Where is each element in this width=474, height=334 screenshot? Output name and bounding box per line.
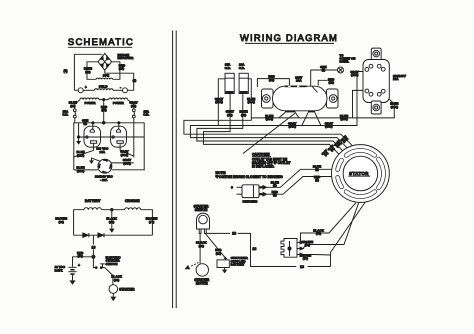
svg-text:(44A): (44A)	[288, 125, 296, 129]
wire bridge AC right to DPE	[112, 62, 120, 80]
wire GRAY 44A under outlet	[218, 72, 363, 126]
panel divider double rule	[173, 31, 177, 309]
label GRN (3) left	[82, 119, 88, 126]
svg-text:(44A): (44A)	[123, 161, 131, 165]
wire starter to ground	[112, 293, 114, 296]
svg-text:NOTE:: NOTE:	[216, 171, 226, 175]
stator slot right	[379, 159, 384, 187]
title SCHEMATIC	[68, 36, 134, 47]
svg-text:(22): (22)	[269, 78, 274, 82]
node center tap dot	[111, 209, 113, 211]
svg-text:(44A): (44A)	[325, 125, 333, 129]
wire customer battery ground	[224, 268, 226, 270]
receptacle 120V right	[111, 126, 127, 147]
label BROWN (77) harness	[300, 253, 312, 260]
label 120/240V 20A right	[393, 74, 406, 81]
terminal arrow 55	[297, 241, 303, 244]
wire bridge DC+ to (1) right rail	[105, 70, 134, 90]
svg-text:(55): (55)	[316, 232, 321, 236]
terminal slot band top	[285, 86, 307, 88]
svg-text:(16): (16)	[199, 244, 204, 248]
label STARTER SWITCH	[194, 204, 210, 211]
label 20A C.B. breaker2	[239, 63, 246, 70]
label 12 VDC BATT.	[55, 265, 66, 272]
label GRAY (44) breaker	[226, 110, 234, 117]
svg-text:(3): (3)	[322, 68, 326, 72]
label POWER left	[85, 101, 97, 105]
wire twist-lock left feed	[74, 169, 98, 171]
stator slot lower-left	[338, 178, 342, 187]
svg-text:WIRING DIAGRAM: WIRING DIAGRAM	[240, 32, 338, 43]
wire GRN drop into right receptacle	[118, 123, 120, 129]
wire switch to starter	[105, 268, 113, 285]
label RED (22) duplex right	[328, 77, 335, 84]
coil FIELD winding	[95, 89, 113, 91]
label GRAY (44)	[129, 101, 137, 108]
wire BLACK 55 harness	[301, 203, 356, 243]
wire twist-lock right top	[112, 157, 134, 163]
label RED (22) at bridge	[119, 63, 126, 70]
wire right receptacle hot down	[120, 143, 134, 156]
svg-text:13: 13	[252, 247, 256, 251]
terminal arrow 77	[297, 253, 303, 256]
wire DC- top loop to field (4)	[74, 54, 102, 90]
svg-text:C.B.: C.B.	[225, 66, 231, 70]
label FIELD	[99, 85, 108, 89]
ground arrow duplex	[76, 141, 81, 145]
svg-text:BATTERY: BATTERY	[231, 263, 245, 267]
title WIRING DIAGRAM	[240, 32, 338, 43]
brush terminal right	[113, 85, 128, 92]
svg-text:(22): (22)	[101, 108, 106, 112]
label BLUE (2) near stator	[313, 164, 321, 171]
customer battery B1	[217, 257, 229, 268]
wire bridge AC left to DPE	[87, 62, 98, 80]
svg-text:SWITCH: SWITCH	[195, 208, 208, 212]
label STARTER	[119, 287, 135, 291]
svg-text:13: 13	[92, 246, 96, 250]
label BLUE (11A) breaker	[247, 97, 255, 104]
svg-text:SCHEMATIC: SCHEMATIC	[68, 36, 134, 47]
caution leader line	[243, 113, 295, 153]
svg-text:(11A): (11A)	[391, 105, 398, 109]
svg-text:(44A): (44A)	[121, 153, 129, 157]
stator slot upper-left	[338, 160, 342, 169]
label RED (22) center tap	[101, 105, 108, 112]
label BLUE (11A) rotated	[340, 135, 349, 144]
ground arrow black 55	[109, 229, 115, 233]
wire RED 22 right	[318, 80, 327, 85]
coil POWER right	[109, 98, 128, 100]
label 120 VAC 20A	[96, 147, 109, 154]
terminal arrow 66	[297, 247, 303, 250]
label 15A C.B. left	[62, 110, 69, 117]
svg-text:(77): (77)	[303, 257, 308, 261]
duplex outlet 120V 20A body	[273, 86, 328, 111]
label CHARGE	[125, 199, 140, 203]
terminal tabs bottom	[285, 110, 315, 112]
label BLUE (11A) under left	[265, 114, 273, 121]
label BLUE (11)	[69, 101, 77, 108]
mount tab bottom	[371, 101, 381, 114]
label GRAY (44A) at 240 outlet	[350, 70, 358, 77]
svg-text:(4): (4)	[63, 69, 67, 73]
label GRAY (44) rotated	[321, 149, 330, 158]
svg-text:(2): (2)	[315, 168, 319, 172]
svg-text:(77): (77)	[149, 220, 154, 224]
label BROWN (77)	[146, 217, 158, 224]
label BROWN (66)	[55, 217, 67, 224]
svg-text:C.B.: C.B.	[62, 113, 68, 117]
label RED (22) duplex left	[268, 75, 275, 82]
receptacle 120V left	[84, 126, 101, 147]
svg-text:(55): (55)	[109, 220, 114, 224]
svg-text:13: 13	[232, 231, 236, 235]
svg-text:20A: 20A	[296, 79, 302, 83]
svg-text:+: +	[78, 263, 80, 267]
wire power center tap	[99, 99, 109, 123]
svg-text:C.B.: C.B.	[239, 66, 245, 70]
svg-text:SWITCH: SWITCH	[106, 262, 118, 266]
circuit breaker CB1 15A left	[73, 100, 80, 123]
stator slot top	[346, 150, 374, 155]
wire GRN drop into left receptacle	[92, 123, 94, 129]
label STARTER MOTOR	[194, 278, 210, 285]
label 120/240 VAC 20A	[95, 175, 114, 182]
linkage dashed arrow	[186, 263, 199, 269]
mount tab top	[371, 48, 381, 61]
coil POWER left	[80, 98, 99, 100]
label BLUE (2) near brush	[271, 180, 279, 187]
svg-text:(44A): (44A)	[215, 100, 223, 104]
wire twist-lock right bottom	[112, 169, 145, 172]
svg-text:*POSITIVE BRUSH CLOSEST TO BEA: *POSITIVE BRUSH CLOSEST TO BEARING	[216, 175, 284, 179]
connector plug J1	[281, 239, 297, 258]
svg-text:RECTIFIER: RECTIFIER	[118, 56, 135, 60]
label 13 at switch	[231, 231, 238, 236]
svg-text:FIELD: FIELD	[99, 85, 108, 89]
label GRAY (44A) breaker	[215, 97, 223, 104]
svg-text:(11): (11)	[241, 113, 246, 117]
wire BLUE 11A under outlet	[251, 99, 394, 118]
ground arrow 12V battery	[69, 280, 75, 284]
diode D1	[83, 233, 89, 237]
label GRAY (44A) rotated	[334, 139, 343, 148]
label BLUE (11A) upper	[77, 150, 85, 157]
label 13 left	[91, 245, 96, 250]
svg-text:STATOR: STATOR	[349, 171, 369, 176]
wire left receptacle hot down	[74, 143, 94, 157]
wire brush RED 1	[267, 177, 332, 195]
svg-text:(11A): (11A)	[248, 100, 255, 104]
svg-text:PANEL: PANEL	[340, 60, 350, 64]
wire battery charge bus	[74, 210, 153, 236]
ground stub twist-lock	[89, 158, 100, 164]
svg-text:+: +	[85, 86, 87, 90]
starter switch key	[197, 213, 210, 233]
node junction red 13	[92, 255, 95, 258]
wire RED 22 left	[257, 79, 289, 87]
svg-text:(11A): (11A)	[266, 117, 273, 121]
wire ground drop duplex	[78, 123, 84, 141]
label BLACK (16)	[111, 275, 122, 282]
label 15A C.B. right	[143, 110, 150, 117]
svg-text:(13): (13)	[78, 254, 83, 258]
wire BROWN 66 harness	[303, 203, 358, 249]
wire 13 to stator	[331, 202, 366, 267]
stator slot bottom	[346, 192, 374, 197]
svg-text:(11A): (11A)	[77, 169, 84, 173]
battery 12VDC	[68, 263, 80, 274]
starter motor S1	[109, 285, 118, 294]
label BLUE (11) breaker	[240, 110, 248, 117]
wire to 12V battery	[73, 257, 94, 267]
svg-text:C.B.: C.B.	[143, 113, 149, 117]
svg-text:STARTER: STARTER	[119, 287, 135, 291]
svg-text:CHARGE: CHARGE	[125, 199, 140, 203]
wire switch to customer battery	[205, 233, 225, 258]
label STATOR	[348, 171, 370, 176]
wire black 55 to ground	[111, 210, 113, 229]
svg-text:(16): (16)	[114, 278, 119, 282]
label DPE	[103, 74, 109, 78]
label GRAY (44A) under right	[325, 121, 333, 128]
wire neutral link between receptacles	[101, 136, 145, 138]
ground arrow starter	[110, 297, 116, 302]
wire switch to starter motor	[199, 233, 201, 263]
brush assembly	[231, 185, 266, 198]
stator inner ring	[343, 156, 378, 191]
label BLACK (55) harness	[313, 228, 324, 235]
label BATTERY	[85, 199, 101, 203]
wire 13 down right	[238, 233, 297, 266]
ground arrow customer battery	[222, 270, 227, 274]
bridge rectifier BR1	[98, 53, 112, 70]
label BLACK (55)	[106, 217, 117, 224]
wire diode bus	[74, 234, 153, 236]
wire switch to 13 label	[206, 232, 230, 234]
svg-text:BRUSHES: BRUSHES	[243, 200, 258, 204]
wire 13 drop	[92, 235, 94, 257]
label 15A C.B. breaker1	[225, 63, 232, 70]
label 120V 20A	[295, 75, 302, 82]
svg-text:DPE: DPE	[103, 74, 109, 78]
label RED (13) right	[215, 248, 222, 255]
circuit breaker 15A C.B.	[225, 73, 234, 93]
receptacle 120/240V 20A body	[363, 60, 389, 103]
mount ear left	[262, 89, 274, 108]
wire GRN 3 to screw	[311, 70, 338, 86]
label BLUE (11A) at 240 outlet	[390, 102, 398, 109]
label TO SCREW ON PANEL	[340, 53, 356, 63]
svg-text:(1): (1)	[315, 178, 319, 182]
note POSITIVE BRUSH text	[216, 171, 284, 179]
note CAUTION text	[252, 153, 290, 169]
node junction dots on box top	[92, 122, 120, 125]
svg-text:IS REPLACED.: IS REPLACED.	[252, 164, 274, 168]
label GRAY (44A) lower	[123, 158, 131, 165]
svg-text:20A: 20A	[100, 150, 106, 154]
wire BLUE 11 bus	[197, 94, 343, 151]
svg-text:13: 13	[300, 265, 304, 269]
svg-text:POWER: POWER	[85, 101, 97, 105]
svg-text:POWER: POWER	[113, 101, 125, 105]
svg-text:(12): (12)	[85, 70, 90, 74]
wire GRAY 44A bus	[190, 79, 347, 148]
wire BLUE 11A bus	[184, 79, 353, 146]
label BLUE (11A) mid	[340, 114, 348, 121]
wire brush BLUE 2	[267, 169, 332, 187]
svg-text:- 20A: - 20A	[100, 178, 108, 182]
svg-text:(2): (2)	[273, 184, 277, 188]
node (1) label	[133, 78, 137, 82]
wire outlet box frame	[74, 123, 144, 171]
svg-text:(66): (66)	[305, 243, 310, 247]
wire BROWN 77 harness	[303, 254, 330, 257]
coil CHARGE winding	[125, 208, 141, 210]
svg-text:CAUTION!!!: CAUTION!!!	[252, 153, 270, 157]
label BRUSHES	[243, 200, 258, 204]
label CUSTOMER SUPPLIED BATTERY	[231, 256, 249, 266]
label RED (1) near stator	[314, 175, 321, 182]
wire GRAY 44 bus	[204, 94, 339, 155]
svg-text:(66): (66)	[59, 220, 64, 224]
electric starter switch	[93, 257, 104, 269]
label BLUE (11) rotated	[327, 144, 336, 153]
label RED (13) left	[77, 251, 84, 258]
label ELECTRIC STARTER SWITCH	[106, 255, 122, 265]
coil DPE winding	[96, 78, 112, 79]
coil BATTERY winding	[84, 208, 101, 210]
mount ear right	[327, 89, 339, 108]
circuit breaker CB2 15A right	[128, 100, 136, 157]
label GRAY (44A) under left	[288, 121, 296, 128]
panel screw symbol	[338, 67, 344, 73]
svg-text:BATTERY: BATTERY	[85, 199, 101, 203]
label BRIDGE RECTIFIER	[118, 53, 135, 60]
svg-text:MOTOR: MOTOR	[196, 281, 209, 285]
svg-text:20A: 20A	[393, 77, 399, 81]
svg-text:BATT.: BATT.	[55, 268, 63, 272]
wire battery to ground	[72, 274, 74, 280]
stator outer ring	[332, 145, 390, 203]
svg-text:(13): (13)	[216, 251, 221, 255]
label GRAY (44A) upper	[120, 150, 128, 157]
svg-text:(1): (1)	[133, 78, 137, 82]
brush terminal left	[74, 86, 94, 93]
node (4) label	[63, 69, 67, 73]
label RED (1) near brush	[272, 190, 279, 197]
label POWER right	[113, 101, 125, 105]
svg-text:(44A): (44A)	[351, 73, 359, 77]
svg-text:(11A): (11A)	[340, 117, 347, 121]
label BLACK (16) right	[196, 241, 207, 248]
svg-text:(11A): (11A)	[77, 153, 84, 157]
label 13 on wire	[297, 264, 331, 269]
wire gray second into 240 outlet	[353, 90, 364, 118]
svg-text:(1): (1)	[273, 193, 277, 197]
svg-text:(44): (44)	[227, 113, 232, 117]
label BLUE (12)	[84, 67, 92, 74]
svg-text:(3): (3)	[83, 122, 87, 126]
receptacle twist-lock 120/240	[98, 159, 112, 173]
starter motor M1	[196, 264, 208, 276]
diode D2	[98, 233, 104, 237]
label BLUE (11A) lower	[77, 166, 85, 173]
label GRN (3) right	[320, 65, 326, 72]
svg-text:(22): (22)	[329, 81, 334, 85]
circuit breaker 20A C.B.	[239, 73, 248, 93]
label BROWN (66) harness	[302, 240, 314, 247]
label 13 mid	[252, 247, 256, 251]
